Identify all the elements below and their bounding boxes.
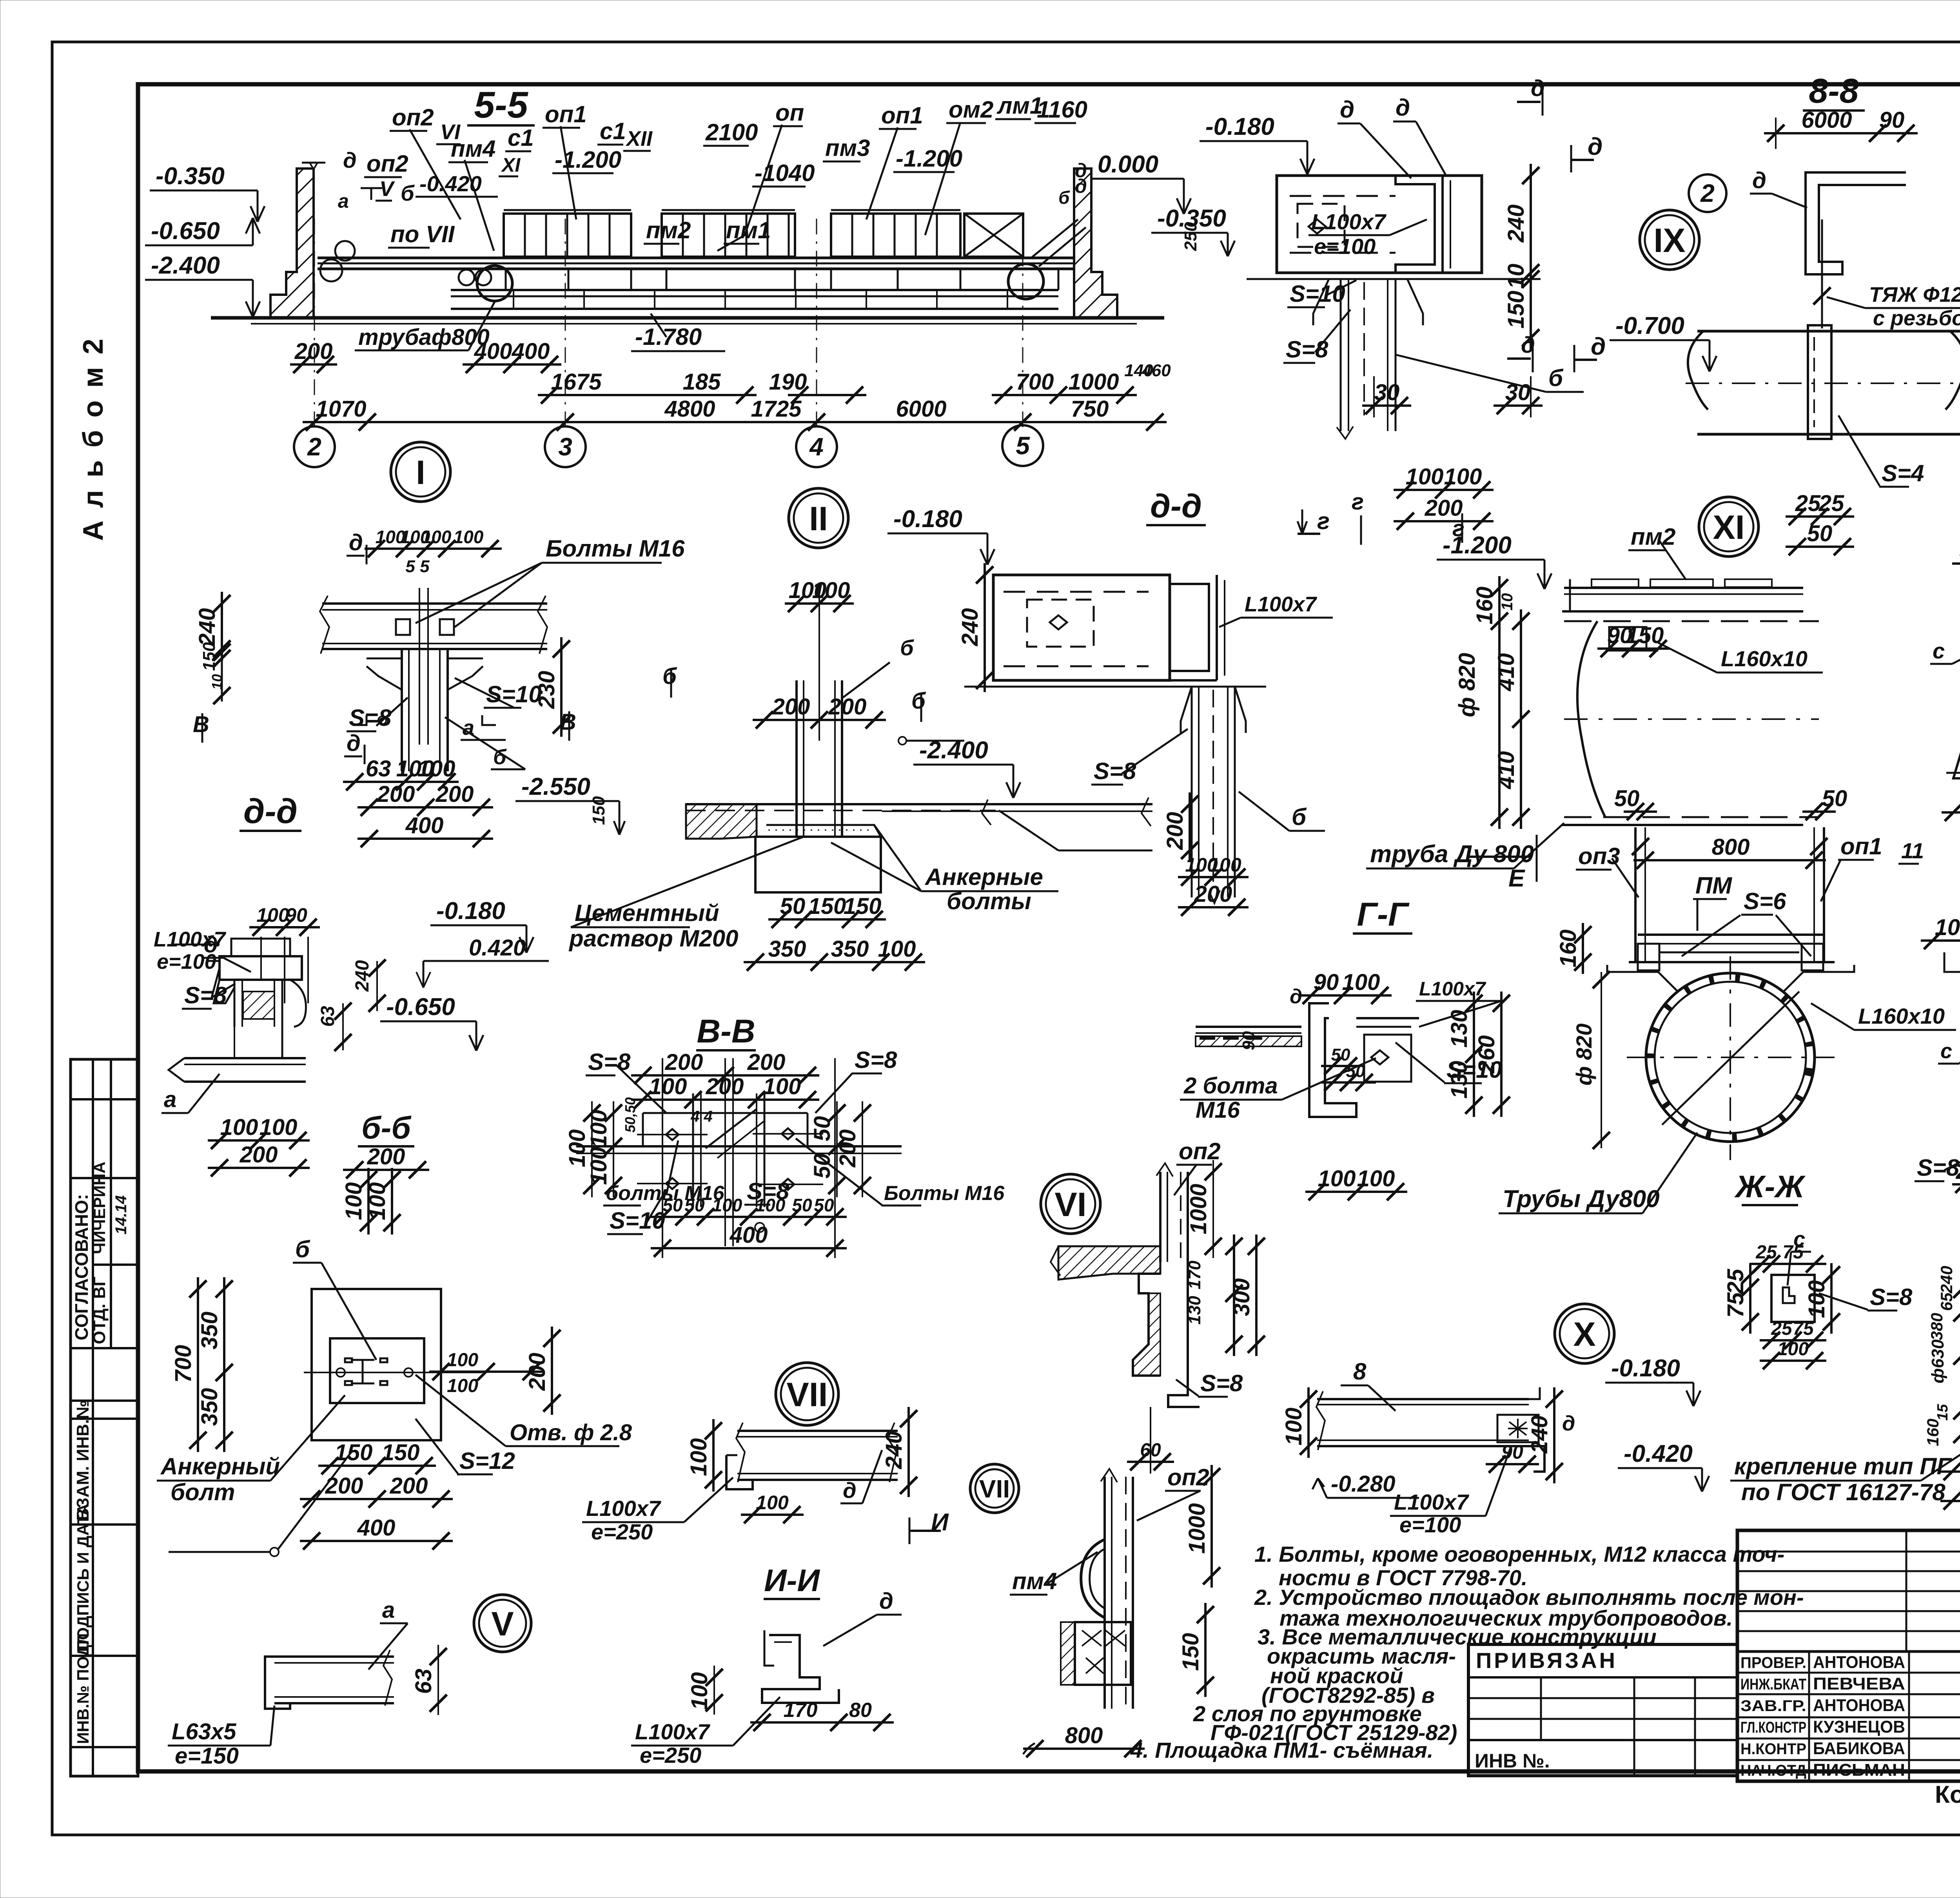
- svg-text:Г-Г: Г-Г: [1357, 896, 1410, 933]
- svg-text:S=8: S=8: [1286, 336, 1328, 363]
- detail II foundation block: [755, 837, 881, 892]
- svg-text:80: 80: [849, 1699, 872, 1722]
- svg-text:L100х7: L100х7: [1245, 593, 1318, 616]
- svg-text:25: 25: [1818, 491, 1844, 516]
- svg-text:150: 150: [589, 796, 608, 825]
- 10-10 dim 850: [1942, 811, 1960, 814]
- bb dim 200 under title: [343, 1169, 429, 1171]
- svg-text:170: 170: [784, 1699, 818, 1722]
- svg-text:ом2: ом2: [949, 96, 993, 123]
- svg-text:НАЧ.ОТД: НАЧ.ОТД: [1740, 1762, 1806, 1779]
- plan ibeam glyph: [345, 1358, 387, 1385]
- svg-text:ПРИВЯЗАН: ПРИВЯЗАН: [1476, 1648, 1617, 1673]
- svg-text:4 4: 4 4: [690, 1108, 713, 1125]
- detail I bolts small rects: [396, 619, 410, 635]
- svg-text:пм2: пм2: [646, 217, 691, 243]
- 8-8 top dims: [1764, 132, 1918, 134]
- svg-text:Е: Е: [1508, 865, 1525, 892]
- svg-text:Н.КОНТР: Н.КОНТР: [1740, 1740, 1806, 1758]
- vv dims right: [836, 1101, 838, 1197]
- x right bracket: [1529, 1387, 1540, 1399]
- svg-text:S=10: S=10: [610, 1207, 665, 1234]
- svg-text:350: 350: [197, 1312, 222, 1350]
- svg-text:ВЗАМ. ИНВ.№: ВЗАМ. ИНВ.№: [73, 1400, 93, 1521]
- svg-text:130: 130: [1446, 1010, 1472, 1048]
- 8-8 pipe: [1697, 330, 1960, 333]
- detail I column: [401, 649, 403, 771]
- detail I gussets: [367, 658, 402, 690]
- svg-text:75: 75: [1793, 1318, 1814, 1339]
- bb bracket top: [171, 944, 220, 946]
- d-d channel right: [1396, 176, 1435, 273]
- svg-text:ПИСЬМАН: ПИСЬМАН: [1813, 1760, 1905, 1780]
- svg-text:-0.180: -0.180: [1611, 1355, 1680, 1382]
- svg-text:190: 190: [769, 369, 807, 395]
- svg-text:S=6: S=6: [1744, 888, 1786, 914]
- svg-text:L100х7: L100х7: [1419, 978, 1486, 1000]
- svg-text:д: д: [1752, 168, 1766, 193]
- i-beam dims: [712, 1419, 715, 1492]
- svg-text:-0.180: -0.180: [893, 506, 962, 533]
- svg-text:лм1: лм1: [996, 92, 1043, 119]
- d-d hanger trapezoid: [1313, 279, 1329, 325]
- svg-text:оп3: оп3: [1578, 843, 1620, 869]
- svg-text:б: б: [295, 1236, 310, 1262]
- svg-text:130: 130: [1185, 1296, 1204, 1325]
- svg-text:8-8: 8-8: [1809, 71, 1858, 110]
- svg-text:300: 300: [1229, 1278, 1254, 1316]
- vii roman small: [970, 1464, 1019, 1513]
- svg-text:410: 410: [1494, 751, 1519, 790]
- svg-text:100: 100: [686, 1438, 711, 1476]
- stamp column grid: [71, 1059, 138, 1776]
- svg-text:100: 100: [417, 756, 456, 781]
- svg-text:АНТОНОВА: АНТОНОВА: [1813, 1696, 1905, 1715]
- svg-text:S=10: S=10: [1290, 281, 1345, 307]
- svg-text:б-б: б-б: [361, 1110, 412, 1145]
- svg-text:350: 350: [197, 1388, 222, 1426]
- svg-text:ПРОВЕР.: ПРОВЕР.: [1740, 1654, 1806, 1671]
- svg-text:200: 200: [772, 694, 810, 720]
- bb hatching small: [243, 992, 274, 1019]
- svg-text:ф 820: ф 820: [1454, 653, 1480, 717]
- x dim 90: [1486, 1463, 1539, 1465]
- svg-text:50: 50: [1614, 786, 1640, 811]
- svg-text:150: 150: [1178, 1633, 1203, 1671]
- vv dims left: [613, 1101, 614, 1197]
- svg-text:крепление тип ПГ: крепление тип ПГ: [1734, 1453, 1952, 1479]
- svg-text:с: с: [1940, 1039, 1952, 1063]
- 5-5 platform grids: [504, 214, 631, 257]
- vv dims bottom: [651, 1216, 717, 1218]
- svg-text:Анкерный: Анкерный: [160, 1453, 280, 1479]
- title block outer: [1737, 1530, 1960, 1781]
- v angle bar: [274, 1655, 394, 1658]
- plan dims bottom: [318, 1465, 436, 1467]
- svg-text:И-И: И-И: [764, 1563, 820, 1598]
- 12-12 left top angle: [1944, 952, 1960, 972]
- svg-text:410: 410: [1494, 653, 1519, 692]
- dd2 dims below: [1178, 876, 1249, 878]
- svg-text:2: 2: [1700, 179, 1715, 207]
- 8-8 roman XI: [1699, 497, 1759, 557]
- svg-text:АНТОНОВА: АНТОНОВА: [1813, 1653, 1905, 1672]
- svg-text:а: а: [164, 1087, 176, 1112]
- bb horizontal plate: [184, 1057, 306, 1059]
- svg-text:5: 5: [1016, 431, 1030, 460]
- gg channel down: [1309, 1003, 1356, 1117]
- svg-text:1725: 1725: [751, 396, 802, 422]
- svg-text:14.14: 14.14: [113, 1195, 130, 1235]
- svg-text:100: 100: [454, 527, 484, 547]
- svg-text:260: 260: [1474, 1035, 1499, 1074]
- svg-text:240: 240: [1527, 1416, 1552, 1454]
- svg-text:0.420: 0.420: [469, 935, 526, 961]
- pipe du800 bracket: [1609, 627, 1646, 651]
- svg-text:S=8: S=8: [184, 982, 227, 1008]
- svg-text:63: 63: [318, 1006, 338, 1027]
- svg-text:оп1: оп1: [881, 102, 923, 129]
- svg-text:160: 160: [1924, 1419, 1942, 1446]
- svg-text:200: 200: [294, 339, 333, 364]
- vii hatch left of bracket: [1061, 1622, 1075, 1685]
- svg-text:с: с: [1933, 638, 1945, 663]
- svg-text:е=150: е=150: [175, 1743, 239, 1769]
- svg-text:50: 50: [814, 1195, 834, 1215]
- svg-text:Анкерные: Анкерные: [924, 864, 1043, 890]
- svg-text:63: 63: [366, 756, 391, 781]
- 8-8 bottom dims: [1786, 515, 1854, 518]
- svg-text:ПЕВЧЕВА: ПЕВЧЕВА: [1813, 1674, 1905, 1693]
- plan dims left: [223, 1277, 225, 1452]
- svg-text:100: 100: [756, 1492, 789, 1514]
- dd2 hanger: [1181, 687, 1192, 733]
- svg-text:2100: 2100: [705, 119, 758, 145]
- svg-text:-0.650: -0.650: [386, 993, 455, 1021]
- svg-text:230: 230: [534, 671, 559, 709]
- svg-text:0.000: 0.000: [1098, 151, 1158, 178]
- svg-text:400: 400: [405, 813, 444, 838]
- 5-5 deck lines: [318, 257, 1074, 259]
- gg dims 100 100 bottom: [1305, 1191, 1407, 1193]
- detail II dims top 100 100: [785, 602, 854, 605]
- dd2 dashed inner: [1004, 591, 1149, 593]
- svg-text:-0.180: -0.180: [436, 897, 505, 925]
- i-beam dim 100: [741, 1514, 804, 1516]
- svg-text:VII: VII: [786, 1376, 828, 1414]
- gg hatched slab: [1196, 1036, 1301, 1046]
- svg-text:L100х7: L100х7: [1394, 1490, 1470, 1514]
- 5-5 pipe left: [477, 266, 512, 301]
- detail II roman: [789, 488, 848, 548]
- svg-text:100: 100: [763, 1074, 801, 1099]
- ee dim 800: [1633, 859, 1826, 861]
- svg-text:д: д: [1562, 1412, 1575, 1435]
- ee pipe circle: [1646, 973, 1815, 1142]
- detail I beam lines: [322, 602, 547, 605]
- 5-5 lower beam lines: [451, 289, 1058, 291]
- svg-text:100: 100: [878, 936, 916, 962]
- svg-text:75: 75: [1723, 1292, 1748, 1318]
- vv center webs: [692, 1093, 694, 1207]
- svg-text:S=4: S=4: [1882, 460, 1924, 486]
- svg-text:Болты М16: Болты М16: [546, 535, 685, 562]
- svg-text:50: 50: [780, 894, 806, 919]
- ee side seats: [1607, 965, 1678, 992]
- svg-text:М16: М16: [1196, 1097, 1240, 1123]
- svg-text:ИНВ.№ ПОДЛ.: ИНВ.№ ПОДЛ.: [74, 1629, 92, 1744]
- vi slab hatched: [1058, 1246, 1160, 1280]
- svg-text:-0.180: -0.180: [1205, 113, 1274, 140]
- ee deck: [1638, 934, 1823, 936]
- svg-text:100: 100: [1804, 1280, 1829, 1318]
- pipe du800 body: [1564, 620, 1819, 622]
- svg-text:4800: 4800: [664, 396, 715, 422]
- svg-text:Трубы Ду800: Трубы Ду800: [1503, 1186, 1660, 1213]
- svg-text:VII: VII: [979, 1475, 1010, 1503]
- vv bolts: [666, 1129, 679, 1140]
- svg-text:90: 90: [1239, 1031, 1258, 1050]
- svg-text:50: 50: [792, 1195, 812, 1215]
- svg-text:100: 100: [447, 1350, 478, 1370]
- svg-text:ЗАВ.ГР.: ЗАВ.ГР.: [1740, 1697, 1806, 1715]
- svg-text:4: 4: [809, 433, 824, 461]
- svg-text:90: 90: [1879, 107, 1905, 133]
- bb dims bottom: [208, 1139, 310, 1142]
- svg-text:160: 160: [1472, 587, 1497, 625]
- detail I breaks: [320, 596, 329, 654]
- vv diagonal: [706, 1109, 757, 1148]
- svg-text:1000: 1000: [1186, 1184, 1211, 1234]
- 8-8 channel: [1806, 172, 1906, 274]
- svg-text:5-5: 5-5: [474, 84, 528, 126]
- d-d bottom dims 30: [1362, 404, 1411, 407]
- svg-text:V: V: [491, 1605, 514, 1643]
- pipe du800 angle seat: [1570, 579, 1588, 611]
- 5-5 leaders top: [410, 129, 461, 219]
- svg-text:200: 200: [665, 1050, 703, 1075]
- svg-text:2: 2: [307, 433, 321, 461]
- 8-8 roman IX: [1640, 210, 1699, 270]
- svg-text:д: д: [1075, 175, 1087, 197]
- 10-10 trapezoid: [1953, 616, 1960, 778]
- ee top dim 50: [1624, 810, 1657, 813]
- 5-5 dim row middle: [538, 394, 757, 396]
- svg-text:150: 150: [1503, 291, 1529, 329]
- svg-text:XII: XII: [625, 127, 653, 150]
- svg-text:90: 90: [1314, 970, 1339, 995]
- svg-text:по ГОСТ 16127-78: по ГОСТ 16127-78: [1741, 1479, 1945, 1505]
- svg-text:240: 240: [194, 608, 220, 647]
- detail II right beam lines: [882, 803, 1152, 805]
- gg dims top 90 100: [1299, 994, 1392, 997]
- svg-text:1070: 1070: [316, 396, 366, 422]
- signature table rows: [1737, 1650, 1960, 1653]
- svg-text:100: 100: [1777, 1339, 1809, 1360]
- detail I top dims: [365, 547, 502, 550]
- svg-text:ГЛ.КОНСТР: ГЛ.КОНСТР: [1740, 1719, 1806, 1736]
- dd2 channel right: [1170, 575, 1209, 680]
- svg-text:ОТД. ВГ: ОТД. ВГ: [90, 1276, 109, 1344]
- d-d right dims: [1530, 164, 1532, 350]
- vii dim 800: [1023, 1748, 1145, 1750]
- svg-text:-0.650: -0.650: [151, 218, 220, 245]
- svg-text:-2.400: -2.400: [151, 252, 220, 279]
- svg-text:с1: с1: [600, 118, 626, 144]
- svg-text:100: 100: [687, 1672, 712, 1710]
- svg-text:100: 100: [1281, 1408, 1307, 1446]
- svg-text:400: 400: [512, 339, 550, 364]
- svg-text:д: д: [347, 731, 361, 756]
- svg-text:25: 25: [1771, 1318, 1793, 1339]
- svg-text:S=12: S=12: [459, 1448, 515, 1474]
- dd2 box: [993, 575, 1170, 680]
- svg-text:д-д: д-д: [1150, 488, 1202, 524]
- svg-text:болт: болт: [171, 1479, 235, 1505]
- svg-text:25: 25: [1723, 1269, 1748, 1294]
- 12-12 dims bottom: [1952, 1183, 1960, 1186]
- svg-text:3: 3: [558, 433, 572, 461]
- i-beam top detail: [737, 1430, 898, 1432]
- svg-text:б: б: [1292, 804, 1307, 830]
- svg-text:6000: 6000: [1801, 107, 1852, 133]
- svg-text:100: 100: [1318, 1166, 1356, 1191]
- svg-text:оп2: оп2: [367, 150, 408, 177]
- 5-5 dim row bottom: [303, 421, 1167, 423]
- svg-text:ИНЖ.БКАТ: ИНЖ.БКАТ: [1740, 1676, 1806, 1693]
- svg-text:оп2: оп2: [1179, 1138, 1221, 1164]
- svg-text:350: 350: [831, 936, 869, 962]
- svg-text:Копировал: Коршунова: Копировал: Коршунова: [1935, 1781, 1960, 1808]
- svg-text:50: 50: [1822, 786, 1847, 811]
- v dim 63: [437, 1645, 439, 1715]
- svg-text:200: 200: [706, 1074, 744, 1099]
- privyazan table: [1468, 1644, 1737, 1776]
- svg-text:оп1: оп1: [1840, 833, 1882, 859]
- svg-text:д: д: [349, 530, 363, 555]
- 5-5 left wall hatched: [270, 169, 314, 318]
- svg-text:пм2: пм2: [1631, 524, 1675, 550]
- 14-14 dims bottom: [1940, 1470, 1960, 1473]
- zh-zh small square: [1771, 1275, 1815, 1322]
- plan dims right: [429, 1370, 543, 1373]
- 5-5 support posts: [505, 269, 507, 290]
- svg-text:63: 63: [411, 1669, 436, 1694]
- 5-5 diagonal braced panel: [964, 214, 1023, 257]
- svg-text:100: 100: [365, 1182, 390, 1220]
- detail II dims 200 200: [753, 719, 886, 721]
- 5-5 grid bubbles: [294, 426, 335, 467]
- svg-text:200: 200: [240, 1142, 278, 1167]
- v roman: [474, 1595, 531, 1652]
- svg-text:XI: XI: [501, 154, 521, 176]
- 5-5 right wall hatched: [1074, 169, 1117, 318]
- svg-text:ф630: ф630: [1928, 1339, 1947, 1383]
- svg-text:800: 800: [1712, 834, 1750, 860]
- svg-text:100: 100: [1444, 464, 1482, 489]
- gg dims 50: [1321, 1065, 1360, 1067]
- pipe du800 dims left: [1498, 576, 1501, 829]
- svg-text:I: I: [416, 454, 425, 491]
- d-d beam box: [1277, 176, 1482, 273]
- svg-text:200: 200: [377, 781, 415, 807]
- svg-text:350: 350: [768, 936, 806, 962]
- vi corbel: [1133, 1274, 1160, 1376]
- svg-text:100: 100: [1342, 970, 1380, 995]
- svg-text:Отв. ф 2.8: Отв. ф 2.8: [510, 1420, 632, 1445]
- vv main cross: [576, 1145, 902, 1148]
- svg-text:-0.280: -0.280: [1331, 1471, 1395, 1497]
- dd2 bottom flange: [993, 679, 1217, 682]
- vii bracket: [1075, 1622, 1131, 1685]
- svg-text:240: 240: [1937, 1266, 1956, 1294]
- svg-text:X: X: [1573, 1316, 1595, 1353]
- svg-text:труба Ду 800: труба Ду 800: [1370, 841, 1534, 868]
- svg-text:L100x7: L100x7: [1311, 209, 1387, 234]
- svg-text:700: 700: [171, 1345, 196, 1383]
- svg-text:1675: 1675: [551, 369, 602, 395]
- svg-text:6000: 6000: [896, 396, 946, 422]
- svg-text:А л ь б о м 2: А л ь б о м 2: [78, 336, 109, 541]
- svg-text:100: 100: [1209, 854, 1241, 876]
- svg-text:185: 185: [683, 369, 721, 395]
- svg-text:L100х7: L100х7: [635, 1719, 711, 1744]
- d-d bottom flange: [1277, 272, 1482, 274]
- pipe du800 dims top small: [1597, 647, 1670, 650]
- svg-text:В: В: [193, 712, 209, 737]
- svg-text:ф 820: ф 820: [1572, 1023, 1596, 1086]
- vi hatch corbel: [1133, 1293, 1160, 1376]
- vii pipe arc: [1081, 1539, 1105, 1618]
- svg-text:д: д: [879, 1588, 893, 1614]
- svg-text:б: б: [911, 688, 926, 714]
- svg-text:S=8: S=8: [1094, 758, 1136, 784]
- detail I roman I: [391, 442, 450, 502]
- svg-text:1. Болты, кроме оговоренных, М: 1. Болты, кроме оговоренных, М12 класса …: [1254, 1542, 1784, 1566]
- svg-text:д: д: [1340, 96, 1354, 123]
- svg-text:СОГЛАСОВАНО:: СОГЛАСОВАНО:: [71, 1194, 92, 1340]
- svg-text:-0.700: -0.700: [1615, 312, 1684, 339]
- 12-12 dims top: [1921, 939, 1960, 942]
- svg-text:-0.350: -0.350: [156, 163, 225, 190]
- i-i clip detail: [764, 1630, 774, 1666]
- d-d dashed inner: [1290, 195, 1396, 197]
- i-i dims: [713, 1666, 715, 1715]
- svg-text:700: 700: [1016, 369, 1054, 395]
- svg-text:460: 460: [1142, 361, 1171, 380]
- E marker: [1469, 856, 1531, 858]
- svg-text:25: 25: [1755, 1242, 1777, 1263]
- detail II leader circle: [898, 737, 906, 745]
- svg-text:100: 100: [649, 1074, 687, 1099]
- svg-text:800: 800: [1065, 1723, 1103, 1748]
- svg-text:ф 250: ф 250: [1956, 334, 1960, 396]
- detail II dim 200 right: [1189, 792, 1191, 862]
- svg-text:100: 100: [220, 1115, 258, 1140]
- x roman: [1555, 1304, 1614, 1363]
- 5-5 axis lines: [314, 218, 315, 427]
- svg-text:11: 11: [1901, 838, 1924, 863]
- svg-text:L100х7: L100х7: [586, 1496, 662, 1521]
- svg-text:д: д: [843, 1478, 857, 1503]
- vii post: [1103, 1477, 1106, 1709]
- svg-text:150: 150: [844, 894, 882, 919]
- svg-text:100: 100: [447, 1376, 478, 1396]
- svg-text:Ж-Ж: Ж-Ж: [1734, 1169, 1806, 1204]
- svg-text:пм1: пм1: [726, 217, 771, 243]
- 5-5 dim row upper: [290, 363, 337, 366]
- svg-text:15: 15: [1935, 1404, 1951, 1421]
